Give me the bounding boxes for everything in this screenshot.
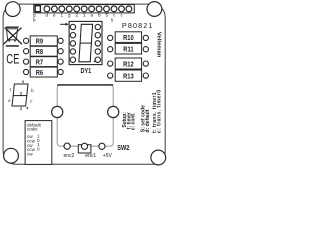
resistor R8 <box>30 46 57 56</box>
SW2 pad enc1 <box>81 143 87 149</box>
svg-text:P80821: P80821 <box>122 21 154 30</box>
segment diagram labels <box>8 79 34 111</box>
resistor R6 <box>30 67 57 77</box>
svg-text:g: g <box>68 12 71 17</box>
resistor R10 <box>115 32 141 43</box>
SW2 middle pad square <box>78 145 91 153</box>
svg-text:R13: R13 <box>123 73 134 81</box>
svg-text:R9: R9 <box>36 38 44 46</box>
mounting hole bottom-right <box>151 150 166 165</box>
svg-text:Velleman: Velleman <box>155 32 161 58</box>
svg-text:R10: R10 <box>123 34 134 42</box>
svg-text:e: e <box>53 12 56 17</box>
SK1 pin labels <box>33 12 124 22</box>
svg-text:c: trans. timer0: c: trans. timer0 <box>157 89 163 133</box>
encoder SW2 outline <box>57 85 113 146</box>
svg-text:SW2: SW2 <box>117 144 129 152</box>
svg-text:b: b <box>98 12 101 17</box>
svg-text:code:: code: <box>27 127 38 132</box>
resistor R9 <box>30 36 57 46</box>
svg-text:1: 1 <box>61 12 64 17</box>
board outline <box>3 4 165 164</box>
svg-text:+5V: +5V <box>103 153 113 159</box>
svg-text:R8: R8 <box>36 48 44 56</box>
display DY1 footprint <box>69 21 102 64</box>
svg-text:0: 0 <box>37 147 40 152</box>
svg-text:d: d <box>46 12 49 17</box>
DY1 decimal point <box>94 61 96 63</box>
svg-text:5: 5 <box>111 18 114 23</box>
SW2 left mounting tab <box>52 106 63 117</box>
resistor R12 <box>115 58 141 69</box>
mounting hole top-left <box>5 2 20 17</box>
svg-text:2: 2 <box>76 12 79 17</box>
svg-text:enc2: enc2 <box>64 153 75 159</box>
mounting hole bottom-left <box>4 148 19 163</box>
segment naming diagram digit <box>12 84 28 106</box>
segment diagram dp dot <box>26 107 28 109</box>
DY1 pin1 arrow <box>60 23 69 26</box>
SW2 right mounting tab <box>108 106 119 117</box>
SW2 pad +5V <box>99 143 105 149</box>
svg-text:cw: cw <box>27 151 33 156</box>
SK1 pin 1 square pad <box>35 6 40 12</box>
resistor R11 <box>115 43 141 54</box>
svg-text:R11: R11 <box>123 46 134 54</box>
svg-text:b: b <box>33 18 36 23</box>
mounting hole top-right <box>147 2 162 17</box>
DY1 pads left column <box>70 24 75 62</box>
setup text block 1 <box>122 112 136 131</box>
default code text <box>27 122 42 156</box>
svg-text:CE: CE <box>6 50 19 66</box>
DY1 pads right column <box>95 24 100 62</box>
resistor R7 <box>30 57 57 67</box>
svg-text:enc1: enc1 <box>85 153 96 159</box>
resistor R13 <box>115 70 141 81</box>
setup text block 2 <box>141 89 163 133</box>
svg-text:R6: R6 <box>36 69 44 77</box>
SW2 pad enc2 <box>64 143 70 149</box>
WEEE crossed-out bin symbol <box>3 27 22 47</box>
connector SK1 header box <box>34 5 135 13</box>
svg-text:5: 5 <box>106 12 109 17</box>
DY1 seven-segment digit outline <box>79 24 93 62</box>
SW2 top edge silk line <box>57 84 113 86</box>
svg-text:c: cont.: c: cont. <box>130 112 136 130</box>
default code box <box>25 121 52 165</box>
svg-text:d: default: d: default <box>145 109 151 132</box>
svg-text:R12: R12 <box>123 61 134 69</box>
svg-text:1: 1 <box>83 12 86 17</box>
svg-text:R7: R7 <box>36 59 44 67</box>
svg-text:a: a <box>91 12 94 17</box>
SK1 round pads <box>44 6 132 12</box>
svg-text:DY1: DY1 <box>81 67 92 75</box>
